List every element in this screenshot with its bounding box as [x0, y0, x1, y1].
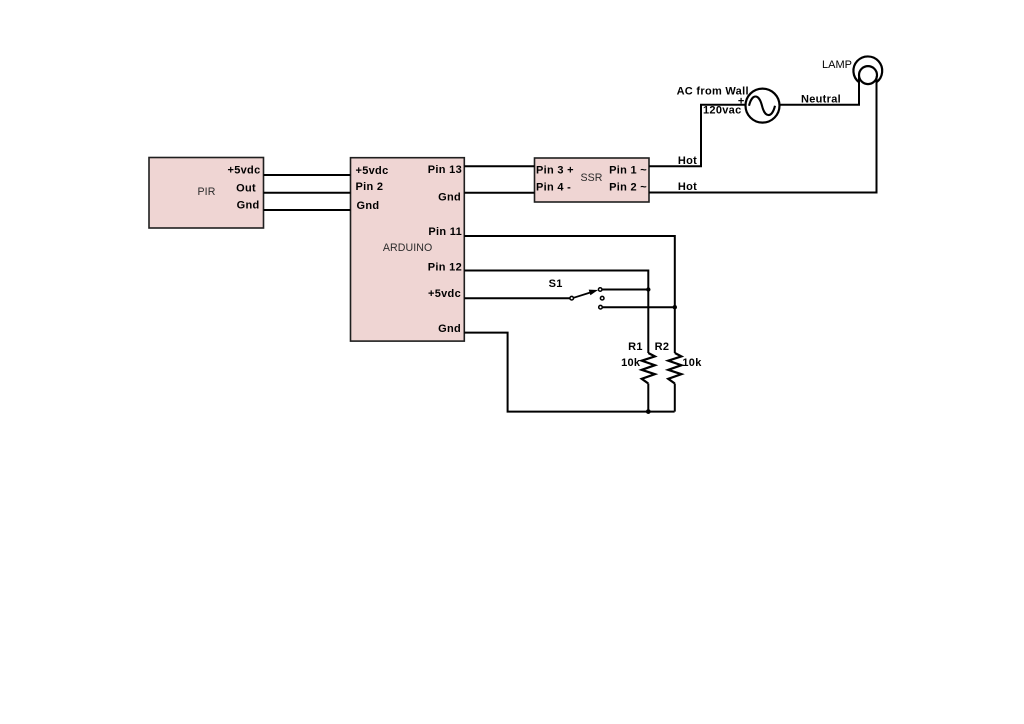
svg-text:Pin 2 ~: Pin 2 ~: [609, 182, 647, 194]
wire ARDUINO Gnd to SSR Pin 4: [464, 192, 534, 194]
svg-text:Pin 13: Pin 13: [428, 164, 462, 176]
wire SSR Pin 2 to lamp (Hot): [649, 77, 877, 193]
wire AC source to lamp (Neutral): [780, 77, 860, 105]
svg-text:PIR: PIR: [198, 186, 216, 198]
wire PIR Out to ARDUINO Pin 2: [264, 192, 351, 194]
wire switch S1 bottom throw to R2 net: [603, 306, 675, 308]
junction dot R1 bottom / ground rail: [646, 409, 651, 414]
svg-text:Pin 12: Pin 12: [428, 261, 462, 273]
wire R1 bottom lead: [647, 384, 649, 412]
svg-text:SSR: SSR: [580, 172, 602, 184]
svg-text:ARDUINO: ARDUINO: [383, 242, 433, 254]
svg-text:S1: S1: [549, 278, 563, 290]
wire switch S1 top throw to R1 net: [603, 289, 649, 291]
svg-text:+5vdc: +5vdc: [228, 165, 261, 177]
svg-text:10k: 10k: [621, 357, 641, 369]
svg-text:Pin 3 +: Pin 3 +: [536, 165, 574, 177]
resistor R1 zigzag: [642, 353, 655, 384]
svg-text:Gnd: Gnd: [438, 191, 461, 203]
svg-text:+5vdc: +5vdc: [356, 165, 389, 177]
svg-text:R1: R1: [628, 341, 643, 353]
wire ARDUINO Pin 12 to R1 top (horizontal + vertical): [464, 271, 648, 354]
svg-text:Pin 1 ~: Pin 1 ~: [609, 165, 647, 177]
wire ARDUINO +5vdc to switch S1 pole: [464, 297, 569, 299]
svg-text:LAMP: LAMP: [822, 59, 852, 71]
svg-text:Pin 11: Pin 11: [428, 226, 462, 238]
switch S1 bottom throw contact: [599, 305, 603, 309]
ARDUINO module box: [351, 158, 465, 341]
SSR module box: [535, 158, 650, 202]
wire SSR Pin 1 to AC hot riser: [649, 105, 746, 167]
junction dot Pin11/S1 bottom throw: [673, 305, 677, 309]
switch S1 middle contact: [600, 296, 604, 300]
svg-text:10k: 10k: [682, 357, 702, 369]
resistor R2 zigzag: [668, 353, 681, 384]
svg-text:Gnd: Gnd: [438, 323, 461, 335]
AC source sine wave: [749, 97, 775, 116]
PIR module box: [149, 158, 264, 229]
svg-text:R2: R2: [655, 341, 670, 353]
lamp LP1 filament loop: [859, 66, 877, 84]
wire PIR +5vdc to ARDUINO +5vdc: [264, 174, 351, 176]
AC source V1 circle: [746, 89, 780, 123]
wire ARDUINO Pin 11 to R2 top (horizontal + vertical): [464, 236, 675, 353]
svg-text:Pin 2: Pin 2: [356, 181, 384, 193]
wire PIR Gnd to ARDUINO Gnd: [264, 209, 351, 211]
switch S1 blade with arrow: [574, 290, 599, 298]
svg-text:Out: Out: [236, 182, 256, 194]
svg-text:Hot: Hot: [678, 155, 697, 167]
svg-text:+5vdc: +5vdc: [428, 288, 461, 300]
svg-text:Gnd: Gnd: [357, 200, 380, 212]
svg-text:120vac: 120vac: [703, 105, 742, 117]
svg-text:Pin 4 -: Pin 4 -: [536, 182, 571, 194]
switch S1 pole contact: [570, 296, 574, 300]
wire R2 bottom lead: [674, 384, 676, 412]
svg-text:AC from Wall: AC from Wall: [677, 85, 749, 97]
switch S1 top throw contact: [598, 288, 602, 292]
wire ARDUINO Gnd to bottom ground rail: [464, 333, 674, 412]
junction dot Pin12/S1 top throw: [646, 287, 650, 291]
svg-text:Hot: Hot: [678, 181, 697, 193]
svg-text:Gnd: Gnd: [237, 200, 260, 212]
wire ARDUINO Pin 13 to SSR Pin 3: [464, 165, 534, 167]
lamp LP1 envelope arc: [853, 56, 882, 82]
